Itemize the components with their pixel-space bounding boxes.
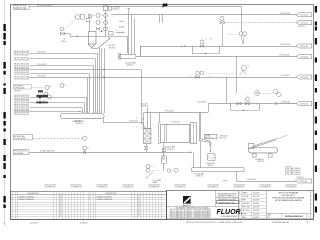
svg-text:FROM 12-PID-00-1099: FROM 12-PID-00-1099 — [14, 112, 29, 114]
svg-text:12-C-102: 12-C-102 — [108, 45, 116, 47]
svg-text:FROM 12-PID-00-1079: FROM 12-PID-00-1079 — [14, 114, 29, 116]
svg-text:12-PID-05: 12-PID-05 — [300, 103, 308, 105]
svg-text:CONTINUED ON: CONTINUED ON — [260, 187, 271, 189]
svg-text:(NOTE 6): (NOTE 6) — [167, 149, 174, 151]
svg-text:6"-PG-12021: 6"-PG-12021 — [281, 102, 290, 104]
svg-text:4"-PG-12019: 4"-PG-12019 — [197, 102, 206, 104]
svg-text:FROM 12-PID-00-1079: FROM 12-PID-00-1079 — [14, 70, 29, 72]
svg-text:CONTINUED ON: CONTINUED ON — [149, 187, 160, 189]
svg-text:FROM 12-PID-00: FROM 12-PID-00 — [14, 151, 27, 153]
svg-text:12-PID-00-3615: 12-PID-00-3615 — [174, 184, 185, 186]
svg-text:PROJ. ENG.: PROJ. ENG. — [242, 210, 250, 212]
svg-text:FROM 12-PID-00-1021: FROM 12-PID-00-1021 — [14, 97, 29, 99]
svg-text:SH 1: SH 1 — [306, 222, 310, 224]
svg-text:12-PID-00-1042: 12-PID-00-1042 — [14, 138, 25, 140]
svg-text:TO CLOSED: TO CLOSED — [153, 180, 163, 182]
svg-text:FROM 12-PID-00-1064: FROM 12-PID-00-1064 — [14, 76, 29, 78]
svg-text:2"-PG-12015: 2"-PG-12015 — [280, 75, 289, 77]
svg-text:DISCH COOLER: DISCH COOLER — [14, 9, 27, 11]
svg-text:DD-MM-YY: DD-MM-YY — [80, 222, 89, 224]
svg-text:12-PID-00-4611: 12-PID-00-4611 — [70, 184, 81, 186]
svg-text:COMP 1ST STG: COMP 1ST STG — [14, 7, 27, 9]
svg-text:2"-PG-12022: 2"-PG-12022 — [171, 122, 180, 124]
svg-text:ISSUED FOR REVIEW: ISSUED FOR REVIEW — [19, 199, 35, 201]
svg-text:(NOTE 13): (NOTE 13) — [219, 138, 226, 140]
svg-text:12-ME-103: 12-ME-103 — [255, 159, 263, 161]
svg-text:2"-PG-12025: 2"-PG-12025 — [219, 136, 228, 138]
svg-text:FROM 12-PID-00-1041: FROM 12-PID-00-1041 — [14, 60, 29, 62]
svg-text:FROM 12-PID-00-1085: FROM 12-PID-00-1085 — [14, 74, 29, 76]
svg-text:3"-PG-12044: 3"-PG-12044 — [247, 179, 256, 181]
svg-text:FROM 12-PID-00-1096: FROM 12-PID-00-1096 — [14, 68, 29, 70]
svg-text:(NOTE 6): (NOTE 6) — [14, 91, 21, 93]
svg-text:FROM 12-PID-00-1038: FROM 12-PID-00-1038 — [14, 64, 29, 66]
svg-text:CONTINUED ON: CONTINUED ON — [123, 187, 134, 189]
svg-text:12-PID-07: 12-PID-07 — [300, 22, 308, 24]
svg-text:CLIENT: CLIENT — [242, 214, 247, 216]
svg-text:CONTINUED ON: CONTINUED ON — [71, 187, 82, 189]
svg-text:FROM 12-PID-00-1039: FROM 12-PID-00-1039 — [14, 100, 29, 102]
svg-text:CONTINUED ON: CONTINUED ON — [234, 187, 245, 189]
svg-text:12-PID-03: 12-PID-03 — [300, 56, 308, 58]
svg-text:12-C-103: 12-C-103 — [141, 103, 148, 105]
svg-text:14"-PG-12001: 14"-PG-12001 — [280, 13, 290, 15]
svg-text:LV: LV — [248, 66, 250, 68]
svg-text:(NOTE 8): (NOTE 8) — [75, 121, 82, 123]
svg-text:ISSUED FOR DESIGN: ISSUED FOR DESIGN — [19, 197, 34, 199]
svg-text:DD-MM-YY: DD-MM-YY — [30, 222, 39, 224]
svg-text:DESCRIPTION: DESCRIPTION — [106, 193, 118, 195]
svg-text:12-PID-00-5552: 12-PID-00-5552 — [259, 184, 270, 186]
svg-text:12-PID-00-7924: 12-PID-00-7924 — [207, 184, 218, 186]
svg-text:FROM 12-PID-00-1013: FROM 12-PID-00-1013 — [14, 55, 29, 57]
svg-text:CONTINUED ON: CONTINUED ON — [175, 187, 186, 189]
svg-text:12-S-101 A/B: 12-S-101 A/B — [125, 62, 136, 65]
svg-text:Agip KCO: Agip KCO — [182, 204, 191, 207]
svg-text:(NOTE 10): (NOTE 10) — [196, 176, 203, 178]
svg-text:FROM 12-PID-00-1045: FROM 12-PID-00-1045 — [14, 58, 29, 60]
svg-text:12-PID-00-1040: 12-PID-00-1040 — [14, 88, 24, 90]
svg-text:12-PID-02: 12-PID-02 — [300, 15, 308, 17]
svg-text:3"-PG-12013: 3"-PG-12013 — [37, 64, 46, 66]
svg-text:CONTINUED ON: CONTINUED ON — [45, 187, 56, 189]
svg-text:(NOTE 7): (NOTE 7) — [205, 137, 212, 139]
svg-text:(NOTE): (NOTE) — [119, 27, 125, 29]
svg-text:(NOTE 9): (NOTE 9) — [208, 165, 214, 167]
svg-text:CONTINUED ON: CONTINUED ON — [286, 187, 297, 189]
svg-text:FROM 12-PID-00-1013: FROM 12-PID-00-1013 — [14, 106, 29, 108]
svg-text:12-PID-00-7873: 12-PID-00-7873 — [44, 184, 55, 186]
svg-text:(NOTE 12): (NOTE 12) — [258, 161, 265, 163]
svg-text:3"-PG-12018: 3"-PG-12018 — [129, 121, 138, 123]
svg-text:10"-PG-12010-B1D4: 10"-PG-12010-B1D4 — [37, 5, 53, 7]
svg-text:12-PID-05: 12-PID-05 — [300, 77, 308, 79]
svg-text:12-ME-102: 12-ME-102 — [207, 163, 215, 165]
svg-text:12-V-01: 12-V-01 — [61, 41, 66, 43]
svg-text:xx: xx — [3, 223, 5, 225]
svg-text:CONTINUED ON: CONTINUED ON — [208, 187, 219, 189]
svg-text:12-PID-00-8359: 12-PID-00-8359 — [96, 184, 107, 186]
svg-text:12-P-101 A/B: 12-P-101 A/B — [194, 173, 205, 176]
svg-text:14"-PG-12002: 14"-PG-12002 — [280, 44, 290, 46]
svg-text:FROM 12-PID-00-1021: FROM 12-PID-00-1021 — [14, 72, 29, 74]
svg-text:FROM 12-PID-00-1093: FROM 12-PID-00-1093 — [14, 110, 29, 112]
svg-text:12-PID-00-5557: 12-PID-00-5557 — [122, 184, 133, 186]
svg-text:FROM 12-PID-00-1091: FROM 12-PID-00-1091 — [14, 51, 29, 53]
svg-text:12-PID-02: 12-PID-02 — [300, 46, 308, 48]
svg-text:NTS: NTS — [267, 217, 270, 219]
svg-text:NOTE: SEE 12-PID-00: NOTE: SEE 12-PID-00 — [285, 170, 300, 172]
svg-text:(NOTE 1): (NOTE 1) — [127, 65, 134, 67]
svg-text:FROM 12-PID-00-1024: FROM 12-PID-00-1024 — [14, 53, 29, 55]
svg-text:2"-PG-12015: 2"-PG-12015 — [37, 75, 46, 77]
svg-text:CHECKED: CHECKED — [242, 196, 249, 198]
svg-text:12-PID-00-3547: 12-PID-00-3547 — [285, 184, 296, 186]
svg-text:NOTE: SEE 12-PID-00: NOTE: SEE 12-PID-00 — [285, 172, 300, 174]
svg-text:12-PID-04: 12-PID-04 — [112, 8, 119, 10]
svg-text:(NOTE 5): (NOTE 5) — [298, 26, 305, 28]
svg-text:SLOPE: SLOPE — [205, 135, 210, 137]
svg-text:(TYP): (TYP) — [223, 181, 227, 183]
svg-text:DESCRIPTION: DESCRIPTION — [28, 193, 40, 195]
svg-text:NOTE: SEE 12-PID-00: NOTE: SEE 12-PID-00 — [285, 168, 300, 170]
svg-text:12-PID-06: 12-PID-06 — [299, 181, 307, 183]
svg-text:FROM 12-PID-00-1074: FROM 12-PID-00-1074 — [14, 102, 29, 104]
svg-text:(NOTE 2): (NOTE 2) — [109, 47, 116, 49]
svg-text:FROM 12-PID-00-1014: FROM 12-PID-00-1014 — [14, 78, 29, 80]
svg-text:ISSUED FOR DESIGN: ISSUED FOR DESIGN — [97, 197, 112, 199]
svg-text:6"-PG-12011: 6"-PG-12011 — [37, 51, 46, 53]
svg-text:P: P — [75, 17, 76, 19]
svg-text:2x100%: 2x100% — [119, 21, 125, 23]
svg-text:FROM 12-PID-00-1027: FROM 12-PID-00-1027 — [14, 66, 29, 68]
svg-text:PROC. ENG.: PROC. ENG. — [242, 207, 251, 209]
svg-text:12-PID-00-6574: 12-PID-00-6574 — [233, 184, 244, 186]
svg-text:12-PID-00-1106: 12-PID-00-1106 — [148, 184, 159, 186]
svg-text:ISSUED FOR REVIEW: ISSUED FOR REVIEW — [97, 199, 113, 201]
svg-text:FROM 12-PID-00: FROM 12-PID-00 — [14, 5, 27, 7]
svg-text:12-E-101 A/B: 12-E-101 A/B — [164, 146, 175, 149]
svg-text:12-PID-00-2001-001: 12-PID-00-2001-001 — [285, 216, 304, 218]
svg-text:8"-PG-12017: 8"-PG-12017 — [165, 110, 174, 112]
svg-text:CONTINUED ON: CONTINUED ON — [97, 187, 108, 189]
svg-text:NOTE: SEE 12-PID-00: NOTE: SEE 12-PID-00 — [285, 174, 300, 176]
svg-text:(NOTE 4): (NOTE 4) — [142, 106, 149, 108]
svg-text:FROM 12-PID-00-1081: FROM 12-PID-00-1081 — [14, 108, 29, 110]
svg-text:(NOTE 3): (NOTE 3) — [76, 123, 83, 125]
svg-text:FROM 12-PID-00-1013: FROM 12-PID-00-1013 — [14, 95, 29, 97]
svg-text:1: 1 — [308, 216, 309, 218]
svg-text:12-PID-00-2001-001: 12-PID-00-2001-001 — [272, 222, 289, 224]
svg-text:10"-PG-12004: 10"-PG-12004 — [279, 55, 289, 57]
